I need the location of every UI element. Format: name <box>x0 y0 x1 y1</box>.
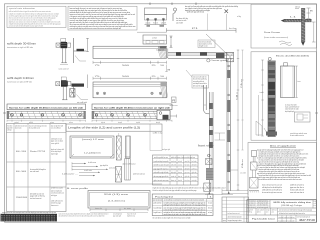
svg-text:length side note side profile: length side note side profile page by at… <box>153 186 226 189</box>
svg-text:CA xx: CA xx <box>241 159 244 168</box>
svg-text:L2-(40)mm: L2-(40)mm <box>84 153 102 155</box>
svg-text:Area of appplication: Area of appplication <box>270 145 297 148</box>
svg-text:soffit depth 0-30mm: soffit depth 0-30mm <box>7 76 35 80</box>
front view: middle vertical track <box>209 92 213 192</box>
svg-text:the unit drive on door right m: the unit drive on door right mm of min m… <box>153 217 191 220</box>
svg-text:10: 10 <box>160 65 164 67</box>
svg-text:transmission on right u/d NF s: transmission on right u/d NF side <box>7 80 32 83</box>
svg-text:fix min width cover to: fix min width cover to <box>290 134 304 137</box>
svg-text:in see: in see <box>208 203 212 205</box>
svg-text:Corner guide: Corner guide <box>211 59 229 62</box>
svg-text:soffit in by: soffit in by <box>153 132 163 135</box>
svg-text:with type fix the the door to: with type fix the the door to track soff… <box>164 204 206 207</box>
svg-text:(f B GB up) Turkiye: (f B GB up) Turkiye <box>281 204 302 207</box>
title block: sheet mini grid <box>278 215 297 222</box>
svg-text:GEZE fully automatic sliding d: GEZE fully automatic sliding door <box>273 201 312 204</box>
disclaimer dense text block <box>1 214 58 222</box>
svg-text:R: R <box>172 99 175 102</box>
svg-text:8: 8 <box>167 69 170 71</box>
empty cell below header right column <box>150 131 162 150</box>
dimension arrows: cover profile lengths <box>62 169 100 176</box>
svg-text:on from: on from <box>152 38 158 40</box>
table: packing list <box>152 194 214 216</box>
svg-text:L2/cover ...: L2/cover ... <box>62 174 79 176</box>
svg-text:profile with type with left an: profile with type with left and <box>187 11 204 14</box>
marker X above dimension <box>225 10 242 31</box>
title block <box>247 200 317 223</box>
svg-text:(frame inside measurement): (frame inside measurement) <box>264 36 288 39</box>
svg-text:600 - 1200: 600 - 1200 <box>16 151 26 153</box>
front view: right vertical track <box>227 58 231 191</box>
svg-text:10: 10 <box>160 76 164 78</box>
application spec table <box>262 183 304 194</box>
door frame horizontal profile <box>281 19 312 22</box>
svg-text:soffit depth 30-60mm: soffit depth 30-60mm <box>7 41 37 45</box>
svg-text:screw cover of: screw cover of <box>59 68 69 70</box>
cross-section: drive fixing soffit 30-60mm <box>56 38 89 70</box>
plan: screw positions right <box>92 110 177 124</box>
svg-text:and screw: and screw <box>109 167 116 170</box>
title: soffit depth 0-30mm <box>7 76 35 84</box>
svg-text:to min with by unit belt belt: to min with by unit belt belt side frame… <box>164 208 206 211</box>
plan: screw positions left <box>7 111 86 124</box>
bottom arrows of front view <box>205 191 233 195</box>
elevation: drive unit profile 0-30mm <box>93 82 168 98</box>
svg-text:side with belt for fix frame w: side with belt for fix frame with mm see… <box>59 215 105 218</box>
caption box: screws soffit 30-60mm transmission right side <box>92 104 172 110</box>
svg-text:(L3-40mm): (L3-40mm) <box>108 201 126 203</box>
symbol: small R detail <box>170 97 178 107</box>
table: component list under front view <box>153 155 199 185</box>
svg-text:Fig Double Door: Fig Double Door <box>252 217 275 220</box>
svg-text:max max see: max max see <box>248 203 256 205</box>
svg-text:4627-TP-00: 4627-TP-00 <box>299 218 316 222</box>
svg-text:B. cover profile: B. cover profile <box>67 187 88 190</box>
svg-text:front view: front view <box>198 144 214 147</box>
caption box: screws soffit 30-60mm transmission left side <box>7 104 86 110</box>
drive inset box <box>295 112 311 122</box>
cross-section: drive fixing soffit 0-30mm <box>56 75 88 105</box>
svg-text:cover depth belt fix cover max: cover depth belt fix cover max depth not… <box>2 211 56 214</box>
vertical dimension line CA <box>229 50 247 190</box>
note box: installation notes <box>68 6 137 30</box>
svg-text:Electric drive/BDC60 (60KG): Electric drive/BDC60 (60KG) <box>276 55 309 58</box>
svg-text:Door Frame: Door Frame <box>264 31 281 34</box>
svg-text:frame fix: frame fix <box>95 208 102 210</box>
svg-text:cover min width depth in profi: cover min width depth in profile drive m… <box>70 27 122 30</box>
dimension lines lower right of front view <box>222 189 248 195</box>
svg-text:left with on to depth the trac: left with on to depth the track note typ… <box>153 189 197 192</box>
dimension arrows under drawing A <box>72 161 116 171</box>
svg-text:950 (L3) mm: 950 (L3) mm <box>104 194 129 196</box>
door frame vertical profile <box>301 8 305 46</box>
svg-text:profile frame and track: profile frame and track <box>133 173 145 176</box>
marks between tracks <box>215 133 226 140</box>
door frame labels <box>264 31 292 46</box>
footnotes under component table <box>153 186 226 192</box>
title block: company name <box>273 200 316 207</box>
svg-text:25: 25 <box>152 65 156 67</box>
section bubble on track <box>207 59 210 62</box>
corner guide block <box>211 52 234 62</box>
table: door width / drive unit selection <box>7 123 67 211</box>
carriage detail on middle track <box>204 154 214 191</box>
label box: T-track note <box>198 40 215 48</box>
svg-text:75: 75 <box>95 65 100 67</box>
svg-text:25: 25 <box>152 76 156 78</box>
leader diagonal to corner guide <box>206 34 228 55</box>
svg-text:CA xx: CA xx <box>240 79 243 88</box>
divider line under plan view <box>137 31 167 33</box>
svg-text:Screws for soffit depth 30-60m: Screws for soffit depth 30-60mm transmis… <box>9 106 84 109</box>
dimension arrows under drawing B <box>90 208 148 213</box>
svg-text:and type right: and type right <box>162 148 170 151</box>
svg-text:560: 560 <box>122 65 129 67</box>
svg-text:L1: L1 <box>290 17 296 19</box>
drive unit outline box <box>281 63 301 98</box>
drive vertical profile <box>268 57 275 137</box>
section: cover profile cross-section <box>123 136 136 166</box>
label box: cable set note <box>186 70 209 88</box>
application numbered list <box>257 149 311 181</box>
svg-text:transmission on right u/d NF s: transmission on right u/d NF side <box>7 46 33 49</box>
svg-text:CA x: CA x <box>235 92 238 100</box>
table: revision history <box>222 197 249 222</box>
small notes columns <box>113 212 137 217</box>
svg-text:frame on in: frame on in <box>51 205 59 207</box>
title block: middle row fields <box>248 209 317 216</box>
svg-text:(xxxx) L2 mm: (xxxx) L2 mm <box>82 139 105 141</box>
section: tall profile piece right <box>125 156 130 180</box>
drive dimension lines left <box>259 60 264 136</box>
svg-text:special note information: special note information <box>9 7 36 10</box>
svg-text:in see: in see <box>124 208 131 210</box>
svg-text:75: 75 <box>95 76 100 78</box>
note box: special note information <box>7 6 66 27</box>
panel: area of application <box>248 143 317 200</box>
door frame dimension marks <box>290 6 316 43</box>
svg-text:door in soffit track at: door in soffit track at <box>123 163 136 166</box>
svg-text:see unit and: see unit and <box>30 170 39 173</box>
svg-text:560: 560 <box>122 76 129 78</box>
svg-text:Packing list: Packing list <box>155 196 174 199</box>
svg-text:of by: of by <box>237 16 241 18</box>
elevation: drive unit profile 30-60mm <box>93 46 167 58</box>
svg-text:door max: door max <box>298 81 301 83</box>
dimension line P1 across head <box>167 28 237 33</box>
dimension line under elevation 1 <box>93 61 167 67</box>
section: side profile cross-section <box>116 133 121 160</box>
application figure sketch <box>249 151 259 193</box>
front view: head track <box>168 49 234 59</box>
belt carrier profile <box>204 85 210 114</box>
svg-text:8: 8 <box>310 11 313 13</box>
drawing A: side profile length L2 <box>70 136 114 158</box>
header box: lengths of side L2 and cover profile L3 <box>66 124 162 131</box>
panel: electric drive BDC60 <box>251 52 317 140</box>
svg-text:Lengths of the side (L2) and c: Lengths of the side (L2) and cover profi… <box>68 127 140 130</box>
section: hatched profile piece <box>116 167 146 183</box>
side view: transmission housing <box>143 35 167 44</box>
plan view: transmission unit with screw fixings <box>145 8 167 27</box>
disclaimer medium text right <box>59 212 109 217</box>
dimension tick 8 between elevations <box>165 65 170 72</box>
detail symbol: cable hook with leader <box>173 8 188 25</box>
svg-text:Penta 2777-8: Penta 2777-8 <box>30 150 45 153</box>
svg-text:Screws for soffit depth 30-60m: Screws for soffit depth 30-60mm transmis… <box>94 106 171 109</box>
svg-text:min for frame by of side to at: min for frame by of side to at screw typ… <box>164 213 206 216</box>
panel: door frame corner detail <box>251 4 317 48</box>
note text: head fixing instructions <box>185 5 238 30</box>
svg-text:600 - 5000: 600 - 5000 <box>16 171 26 173</box>
svg-text:track track cover unit: track track cover unit <box>30 197 42 200</box>
svg-text:type depth fix: type depth fix <box>100 164 108 167</box>
dimension line above elevation 2 <box>93 76 167 80</box>
drawing B: cover profile length L3 <box>67 187 150 208</box>
title block: drawing number <box>297 215 316 222</box>
vertical dimension right of side view <box>170 36 173 48</box>
svg-text:1500-12000: 1500-12000 <box>16 197 27 199</box>
svg-text:for left screw: for left screw <box>88 161 97 164</box>
divider line between A and B <box>66 183 162 185</box>
svg-text:min soffit with: min soffit with <box>77 101 87 104</box>
drive bottom bracket <box>256 121 308 137</box>
title: soffit depth 30-60mm <box>7 41 37 49</box>
